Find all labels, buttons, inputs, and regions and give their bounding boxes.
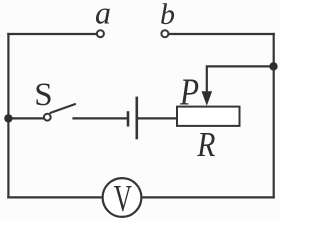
wire battery to rheostat [138, 117, 177, 119]
junction dot right [269, 62, 277, 70]
terminal a [97, 30, 104, 37]
voltmeter V [103, 178, 142, 217]
wire voltmeter to bottom-right corner [141, 196, 273, 198]
wire right vertical [273, 34, 275, 197]
wire terminal b to top-right corner [169, 33, 274, 35]
switch blade [50, 104, 75, 113]
svg-text:S: S [34, 77, 52, 113]
wire switch to battery [74, 117, 127, 119]
slider arrow P [202, 91, 213, 106]
svg-text:P: P [179, 71, 199, 114]
label R [196, 126, 215, 165]
battery short plate [127, 111, 130, 126]
junction dot left [4, 114, 12, 122]
terminal b [161, 30, 168, 37]
svg-text:a: a [95, 0, 111, 30]
wire branch from junction to slider [207, 66, 274, 93]
wire left dot to switch pivot [8, 117, 43, 119]
switch pivot [44, 114, 51, 121]
svg-text:R: R [196, 126, 215, 165]
battery long plate [136, 97, 139, 140]
label P [179, 71, 199, 114]
svg-text:V: V [114, 177, 132, 219]
svg-text:b: b [160, 0, 175, 31]
wire top-left to terminal a [8, 33, 96, 35]
rheostat R box [177, 107, 240, 126]
wire left vertical [7, 34, 9, 197]
wire bottom-left to voltmeter [8, 196, 102, 198]
